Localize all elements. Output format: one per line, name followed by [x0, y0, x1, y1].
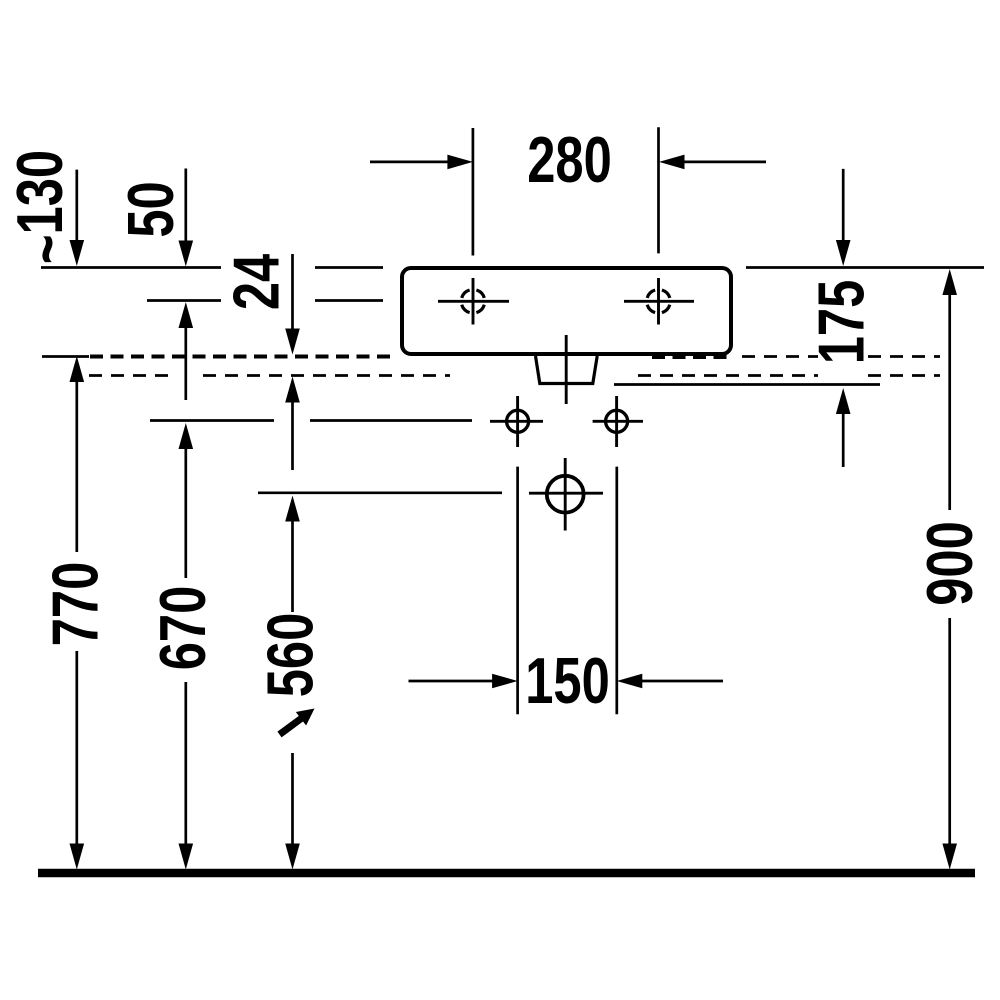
- node basin outline: [402, 268, 731, 354]
- wire reference line A (basin top level, left segments): [41, 266, 221, 269]
- node arrowhead 670 down: [179, 844, 194, 870]
- node arrowhead 150 left-pointing: [617, 674, 643, 689]
- wire faucet-centre reference line (left segments): [147, 299, 221, 302]
- node arrowhead 770 down: [70, 844, 85, 870]
- wire dim 50 lower line: [184, 326, 187, 400]
- wire wall mounting dashed line 1 (thin dashes right): [742, 355, 940, 358]
- wire right small circle cross: [593, 396, 643, 447]
- node arrowhead 560 up: [285, 496, 300, 522]
- node arrowhead 175 down: [836, 240, 851, 266]
- node arrowhead 280 left-pointing: [659, 155, 685, 170]
- node arrowhead 900 down: [942, 844, 957, 870]
- node left faucet hole dashed circle: [462, 290, 485, 313]
- wire dim 900 line: [948, 292, 951, 510]
- wire dim ~130 line: [75, 170, 78, 243]
- wire dim 560 line: [291, 518, 294, 612]
- wire dim 150 right shaft: [641, 680, 723, 683]
- wire dim 280 left shaft: [370, 161, 450, 164]
- wire dim 280 right shaft: [683, 161, 766, 164]
- wire 175 lower reference line: [614, 383, 880, 386]
- node arrowhead 150 right-pointing: [492, 674, 517, 689]
- node slope direction arrow: [296, 709, 315, 726]
- wire right small-circle extension line down: [615, 467, 618, 715]
- svg-text:560: 560: [255, 613, 327, 698]
- wire left faucet extension line up: [472, 128, 475, 256]
- svg-text:770: 770: [40, 562, 112, 647]
- wire dim 50 upper line: [184, 169, 187, 244]
- wire dim 24 lower line: [291, 400, 294, 470]
- ground floor line: [38, 869, 975, 878]
- node arrowhead 50 down: [179, 241, 194, 267]
- wire dim 175 upper line: [842, 169, 845, 241]
- svg-text:~130: ~130: [4, 150, 83, 264]
- wire big-circle centre reference line: [258, 491, 502, 494]
- wire left small circle cross: [490, 396, 543, 447]
- node drain trapezoid: [536, 356, 598, 384]
- wire right faucet extension line up: [657, 127, 660, 253]
- wire wall mounting dashed line 1 (lead-in solid): [42, 355, 89, 358]
- wire wall mounting dashed line 2: [89, 374, 940, 377]
- wire dim 150 left shaft: [409, 680, 495, 683]
- wire dim 175 lower line: [842, 411, 845, 467]
- wire big circle cross: [529, 458, 603, 531]
- node arrowhead 175 up: [836, 388, 851, 414]
- node arrowhead 24 down: [285, 329, 300, 355]
- wire left small-circle extension line down: [516, 467, 519, 715]
- node right faucet hole dashed circle: [647, 290, 670, 313]
- node big drain circle: [547, 476, 584, 513]
- node left small circle: [507, 410, 529, 432]
- node arrowhead 50 up: [179, 302, 194, 328]
- node arrowhead 24 up: [285, 377, 300, 403]
- node right small circle: [606, 410, 628, 432]
- wire wall mounting dashed line 1 (thick dashes): [90, 355, 728, 360]
- wire reference line A (right of basin): [746, 266, 984, 269]
- svg-text:50: 50: [115, 181, 187, 237]
- node arrowhead ~130 down: [70, 240, 85, 266]
- wire dim 24 upper line: [291, 254, 294, 331]
- node arrowhead 670 up: [179, 423, 194, 449]
- svg-text:670: 670: [147, 586, 219, 671]
- svg-text:24: 24: [221, 253, 293, 310]
- node arrowhead 900 up: [942, 269, 957, 295]
- wire dim 770 line: [75, 379, 78, 552]
- svg-text:175: 175: [806, 280, 878, 365]
- wire dim 670 line: [184, 446, 187, 578]
- svg-text:900: 900: [914, 521, 986, 606]
- node arrowhead 770 up: [70, 356, 85, 382]
- wire small-circle centre reference line: [150, 419, 274, 422]
- wire drain centre line: [565, 335, 568, 404]
- svg-text:150: 150: [525, 645, 610, 717]
- node arrowhead 560 down: [285, 844, 300, 870]
- svg-text:280: 280: [527, 124, 612, 196]
- node left faucet hole cross: [438, 278, 509, 325]
- node arrowhead 280 right-pointing: [447, 155, 473, 170]
- node right faucet hole cross: [624, 278, 694, 325]
